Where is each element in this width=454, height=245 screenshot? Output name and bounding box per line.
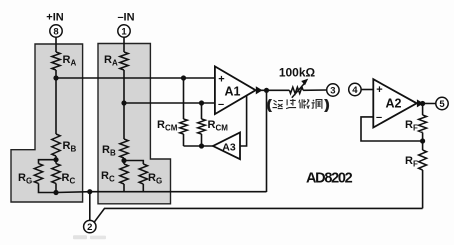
- node A1 output: [264, 88, 269, 93]
- svg-text:F: F: [413, 124, 418, 133]
- svg-text:–: –: [218, 98, 224, 110]
- node RCM2 tap: [199, 100, 204, 105]
- pin 1 circle: [118, 25, 130, 37]
- pin 4 circle: [349, 83, 361, 95]
- wire RCM bottom rail to A3: [184, 145, 214, 147]
- svg-text:A: A: [71, 59, 77, 68]
- node box1 RB bottom: [53, 157, 58, 162]
- node box1 tap: [53, 75, 58, 80]
- svg-text:R: R: [18, 172, 26, 184]
- resistor RF (bottom): [422, 141, 424, 150]
- wire branch to RG (box2): [124, 161, 143, 165]
- wire A1 output down to ground bus: [266, 90, 268, 192]
- wire RA2 to node: [123, 70, 125, 103]
- resistor RG (box1): [34, 164, 42, 184]
- svg-text:A2: A2: [386, 96, 402, 110]
- svg-text:R: R: [63, 54, 71, 66]
- resistor RC (box2): [123, 161, 125, 165]
- svg-text:F: F: [413, 160, 418, 169]
- svg-text:R: R: [405, 155, 413, 167]
- svg-text:R: R: [62, 172, 70, 184]
- svg-text:R: R: [102, 144, 110, 156]
- node box2 RB bottom: [123, 158, 125, 161]
- svg-text:R: R: [148, 172, 156, 184]
- wire A2 inverting feedback: [361, 117, 423, 141]
- svg-text:G: G: [156, 177, 162, 186]
- wire pin1 to RA: [123, 37, 125, 52]
- svg-text:): ): [325, 98, 329, 112]
- wire pin4 to A2: [361, 89, 373, 91]
- svg-text:R: R: [63, 140, 71, 152]
- svg-text:+IN: +IN: [46, 12, 63, 24]
- wire junction down to pin2: [89, 192, 91, 221]
- pin 5 circle: [436, 97, 448, 109]
- A2 output arrowhead: [417, 99, 424, 107]
- svg-text:+: +: [376, 84, 382, 96]
- svg-text:R: R: [208, 119, 216, 131]
- svg-text:–: –: [376, 112, 382, 124]
- svg-text:100kΩ: 100kΩ: [279, 65, 316, 79]
- node box1 bottom: [53, 190, 58, 195]
- svg-text:R: R: [101, 170, 109, 182]
- svg-text:C: C: [70, 177, 76, 186]
- wire box1 bottoms to ground bus: [39, 183, 57, 192]
- wire A2 output to pin5: [417, 102, 436, 104]
- svg-text:B: B: [110, 149, 116, 158]
- node RCM1 tap: [181, 75, 186, 80]
- resistor RA (box2): [120, 52, 128, 70]
- svg-text:8: 8: [53, 26, 58, 37]
- node RCM rail junction: [199, 143, 204, 148]
- wire branch to RG (box1): [39, 160, 57, 164]
- node box2 tap: [121, 100, 126, 105]
- svg-text:A1: A1: [225, 85, 241, 99]
- svg-text:A: A: [112, 59, 118, 68]
- wire RB to node: [55, 156, 57, 160]
- A1 output arrowhead: [256, 86, 263, 94]
- wire node down to RB: [55, 78, 57, 134]
- resistor RA (box1): [52, 52, 60, 70]
- svg-text:G: G: [26, 177, 32, 186]
- resistor RF (top): [419, 115, 427, 133]
- svg-text:5: 5: [439, 99, 445, 110]
- wire -input to A1: [124, 102, 215, 104]
- svg-text:–IN: –IN: [117, 12, 134, 24]
- wire to pin3: [303, 89, 327, 91]
- svg-text:CM: CM: [165, 124, 178, 133]
- wire +input to A1: [56, 77, 215, 79]
- wire pin2 diagonal to bottom rail: [94, 208, 422, 222]
- resistor RG (box2): [139, 164, 147, 184]
- resistor 100k ohm (trimmed): [289, 87, 303, 93]
- trim arrow: [292, 83, 305, 98]
- resistor RB (box2): [120, 139, 128, 158]
- faint watermark remnant: [73, 235, 87, 239]
- op-amp A3 (buffer): [213, 133, 240, 160]
- op-amp A1: [215, 66, 256, 114]
- svg-text:R: R: [157, 119, 165, 131]
- resistor network box 2 (-IN attenuator): [98, 44, 171, 204]
- pin 3 circle: [327, 84, 339, 96]
- wire ground bus y192: [56, 191, 267, 194]
- wire A3 input from A1 body: [240, 96, 247, 146]
- resistor RCM (left): [183, 78, 185, 119]
- wire RF bottom to ground rail: [422, 170, 424, 208]
- wire A1 output: [256, 89, 290, 91]
- pin 8 circle: [50, 25, 62, 37]
- svg-text:A3: A3: [222, 142, 236, 154]
- pin 2 circle: [84, 220, 96, 232]
- resistor RB (box1): [52, 134, 60, 156]
- node RF midpoint: [420, 138, 425, 143]
- op-amp A2: [373, 79, 416, 127]
- svg-text:B: B: [71, 145, 77, 154]
- svg-text:R: R: [405, 119, 413, 131]
- resistor RC (box1): [55, 160, 57, 164]
- wire A2 output down: [422, 104, 424, 116]
- resistor RCM (right): [201, 103, 203, 119]
- resistor network box 1 (+IN attenuator): [11, 44, 83, 202]
- wire pin8 to RA: [55, 37, 57, 52]
- svg-text:4: 4: [352, 85, 358, 96]
- svg-text:AD8202: AD8202: [306, 170, 353, 186]
- wire box2 RC RG bottoms: [123, 184, 125, 192]
- node A2 output: [420, 101, 425, 106]
- svg-text:CM: CM: [216, 124, 229, 133]
- svg-text:2: 2: [87, 222, 92, 233]
- svg-text:1: 1: [121, 26, 127, 37]
- svg-text:C: C: [109, 175, 115, 184]
- svg-text:R: R: [104, 54, 112, 66]
- svg-text:+: +: [218, 73, 224, 85]
- label (trimmed) hand-drawn CJK strokes: [267, 98, 329, 112]
- wire RA to node: [55, 70, 57, 78]
- svg-text:3: 3: [330, 85, 335, 96]
- node ground junction: [87, 189, 92, 194]
